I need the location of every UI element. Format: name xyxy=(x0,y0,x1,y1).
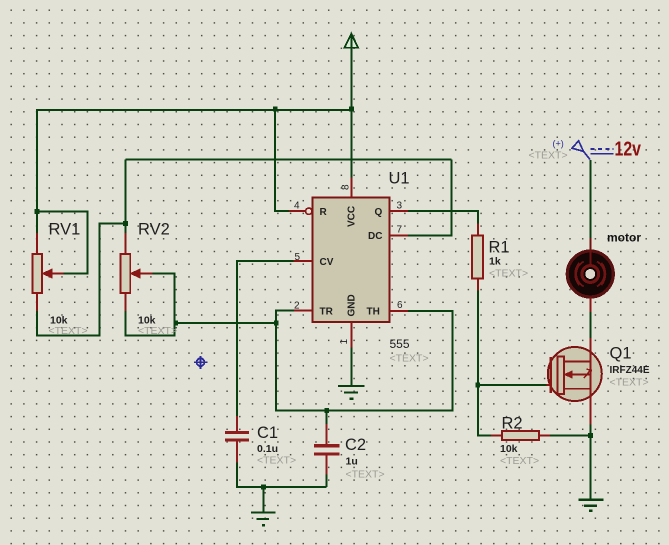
RV1 bottom pin xyxy=(36,293,38,311)
R1 bottom pin xyxy=(477,279,479,291)
svg-text:Q: Q xyxy=(375,207,383,218)
pin 6 stub xyxy=(389,310,407,312)
motor bottom pin xyxy=(589,298,591,313)
svg-text:(+): (+) xyxy=(553,139,564,149)
power arrow symbol xyxy=(345,34,359,48)
svg-text:RV2: RV2 xyxy=(138,221,170,239)
svg-text:2: 2 xyxy=(294,301,300,312)
svg-text:R1: R1 xyxy=(489,239,510,257)
wire R1 bottom to R2 row xyxy=(478,290,492,435)
svg-text:<TEXT>: <TEXT> xyxy=(390,353,429,365)
svg-text:RV1: RV1 xyxy=(49,221,81,239)
svg-text:6: 6 xyxy=(397,300,403,311)
wire pin1 ground stem xyxy=(351,348,353,386)
svg-text:<TEXT>: <TEXT> xyxy=(610,377,649,389)
wire left vertical to RV1 top xyxy=(36,109,38,233)
body diode mark xyxy=(584,369,591,378)
svg-text:Q1: Q1 xyxy=(610,345,632,363)
op... IC U1 555 body xyxy=(313,198,390,323)
wire RV1 bottom loop xyxy=(37,223,125,335)
svg-text:C1: C1 xyxy=(257,424,278,442)
svg-text:R: R xyxy=(320,207,328,218)
RV1 top pin xyxy=(36,233,38,254)
body connection with arrow xyxy=(570,374,591,376)
svg-text:TH: TH xyxy=(367,307,380,318)
power arrow stem inside triangle xyxy=(350,35,352,48)
potentiometer RV2 body xyxy=(121,254,131,293)
wire CV to C1 xyxy=(237,261,294,416)
svg-text:<TEXT>: <TEXT> xyxy=(346,469,385,481)
ground (bottom left) xyxy=(251,513,276,526)
source connection xyxy=(564,389,590,425)
transistor Q1 MOSFET circle xyxy=(548,347,602,401)
wire pin 3 to R1 top xyxy=(408,211,478,223)
R2 left pin xyxy=(491,435,502,437)
wire VCC down to pin 8 xyxy=(351,109,353,178)
wire RV2 top vertical xyxy=(124,160,126,234)
Q1 gate entry stub xyxy=(547,384,551,386)
C2 bottom pin xyxy=(326,456,328,475)
wire C2 bottom stub xyxy=(326,474,328,487)
R2 right pin xyxy=(539,435,550,437)
svg-text:CV: CV xyxy=(320,257,334,268)
svg-text:10k: 10k xyxy=(500,443,518,455)
motor M1 xyxy=(567,251,613,297)
potentiometer RV1 body xyxy=(32,254,42,293)
gate lead bar xyxy=(549,357,552,393)
C1 top pin xyxy=(236,416,238,431)
wire RV2 bottom loop xyxy=(125,311,174,336)
svg-text:<TEXT>: <TEXT> xyxy=(49,325,88,337)
wire second horizontal RV2-DC xyxy=(125,159,451,161)
wire 12v supply down to motor xyxy=(590,160,592,238)
pin 4 stub xyxy=(289,210,305,212)
svg-text:IRFZ44E: IRFZ44E xyxy=(610,364,650,376)
wire pin 4 R path xyxy=(275,109,289,211)
svg-text:1: 1 xyxy=(339,339,350,345)
wire R2 right to source xyxy=(550,435,591,437)
svg-text:0.1u: 0.1u xyxy=(257,443,278,455)
pin 5 stub xyxy=(293,260,312,262)
wire C2 top stub xyxy=(326,410,328,424)
origin crosshair marker xyxy=(194,356,207,369)
wire TR net horizontal xyxy=(176,322,276,324)
svg-text:C2: C2 xyxy=(345,436,366,454)
C2 top pin xyxy=(326,424,328,444)
wire C1 bottom to ground rail xyxy=(237,463,327,488)
wire RV1 wiper link xyxy=(37,212,87,274)
svg-text:<TEXT>: <TEXT> xyxy=(257,455,296,467)
Q1 internals xyxy=(551,338,592,425)
motor top pin xyxy=(589,238,591,266)
svg-text:VCC: VCC xyxy=(347,206,358,227)
svg-text:1k: 1k xyxy=(489,256,501,268)
battery terminal symbol (+) xyxy=(572,141,614,160)
body arrowhead xyxy=(565,371,572,378)
wire pin 2 connection xyxy=(276,311,294,323)
ground (bottom right) xyxy=(579,500,604,511)
pin 7 stub xyxy=(389,234,407,236)
svg-text:555: 555 xyxy=(390,337,410,351)
wire VCC top horizontal xyxy=(37,109,352,111)
gate plate rectangle xyxy=(558,357,565,395)
svg-text:motor: motor xyxy=(607,231,641,245)
svg-text:8: 8 xyxy=(341,184,352,190)
RV2 top pin xyxy=(124,233,126,254)
wire DC pin7 path xyxy=(408,160,452,236)
ground (555 pin 1) xyxy=(338,386,364,399)
capacitor C2 plates xyxy=(314,444,339,455)
RV2 wiper arrow xyxy=(132,270,153,277)
svg-text:<TEXT>: <TEXT> xyxy=(138,325,177,337)
RV1 wiper arrow xyxy=(44,270,64,277)
wire motor to Q1 drain xyxy=(590,312,592,339)
wire RV2 wiper down xyxy=(152,274,175,324)
wire power arrow stem xyxy=(351,48,353,110)
svg-text:U1: U1 xyxy=(389,170,410,188)
svg-text:GND: GND xyxy=(347,294,358,316)
RV2 bottom pin xyxy=(124,293,126,311)
C1 bottom pin xyxy=(236,441,238,462)
pin 2 stub xyxy=(294,310,313,312)
svg-text:3: 3 xyxy=(397,201,403,212)
pin 8 stub xyxy=(351,178,353,198)
svg-text:5: 5 xyxy=(295,252,301,263)
capacitor C1 plates xyxy=(225,431,249,442)
svg-text:7: 7 xyxy=(397,225,403,236)
resistor R2 body xyxy=(502,431,539,440)
wire gate connection xyxy=(478,384,549,386)
svg-text:<TEXT>: <TEXT> xyxy=(489,268,528,280)
wire bottom-left ground stem xyxy=(263,487,265,512)
pin 1 stub xyxy=(351,322,353,348)
svg-text:TR: TR xyxy=(320,307,334,318)
svg-text:R2: R2 xyxy=(502,415,523,433)
resistor R1 body xyxy=(472,236,483,279)
R1 top pin xyxy=(477,224,479,236)
pin 3 stub xyxy=(389,210,407,212)
svg-text:12v: 12v xyxy=(615,139,642,161)
svg-text:DC: DC xyxy=(368,231,382,242)
U1 pin stubs xyxy=(289,178,408,348)
svg-text:4: 4 xyxy=(294,201,300,212)
drain connection xyxy=(564,338,590,362)
svg-text:<TEXT>: <TEXT> xyxy=(500,455,539,467)
pin 4 inversion bubble xyxy=(306,208,312,214)
svg-text:<TEXT>: <TEXT> xyxy=(529,150,568,162)
svg-text:1u: 1u xyxy=(346,456,358,468)
wire source to ground xyxy=(590,424,592,499)
wire TR-TH bottom loop xyxy=(276,311,452,410)
Q1 vertical channel link xyxy=(590,362,592,389)
